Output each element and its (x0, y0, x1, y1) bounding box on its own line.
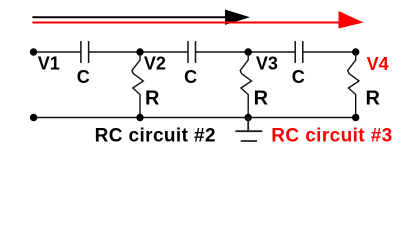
red arrowhead (339, 11, 364, 29)
svg-text:C: C (292, 67, 305, 87)
bottom rail wire (34, 117, 356, 119)
svg-text:V3: V3 (256, 53, 278, 73)
svg-text:R: R (254, 87, 269, 109)
node V1 dot (30, 48, 37, 55)
capacitor C2 plates (188, 41, 196, 63)
black arrow shaft (32, 16, 232, 18)
svg-text:V1: V1 (38, 53, 60, 73)
wire C2 to C3 through node V3 (196, 51, 296, 53)
node V2 dot (136, 48, 143, 55)
bottom node dot under V2 (136, 114, 143, 121)
wire C1 to C2 through node V2 (89, 51, 188, 53)
capacitor C1 plates (81, 41, 89, 63)
red arrow shaft (32, 22, 342, 24)
svg-text:C: C (184, 67, 197, 87)
bottom node dot under V4 (352, 114, 359, 121)
svg-text:RC circuit #3: RC circuit #3 (271, 126, 392, 147)
svg-text:RC circuit #2: RC circuit #2 (95, 126, 216, 147)
bottom left node dot (30, 114, 37, 121)
wire C3 to V4 (303, 51, 356, 53)
resistor R under V4 (348, 52, 359, 118)
ground (235, 118, 262, 142)
node V4 dot (352, 48, 359, 55)
svg-text:R: R (145, 87, 160, 109)
svg-text:V4: V4 (367, 54, 389, 74)
svg-text:C: C (77, 67, 90, 87)
svg-text:V2: V2 (144, 53, 166, 73)
svg-text:R: R (366, 87, 381, 109)
resistor R under V3 (240, 52, 251, 118)
resistor R under V2 (132, 52, 143, 118)
wire V1 to C1 (34, 51, 81, 53)
node V3 dot (245, 48, 252, 55)
capacitor C3 plates (295, 41, 303, 63)
black arrowhead (225, 10, 250, 25)
bottom node dot under V3 (245, 114, 252, 121)
